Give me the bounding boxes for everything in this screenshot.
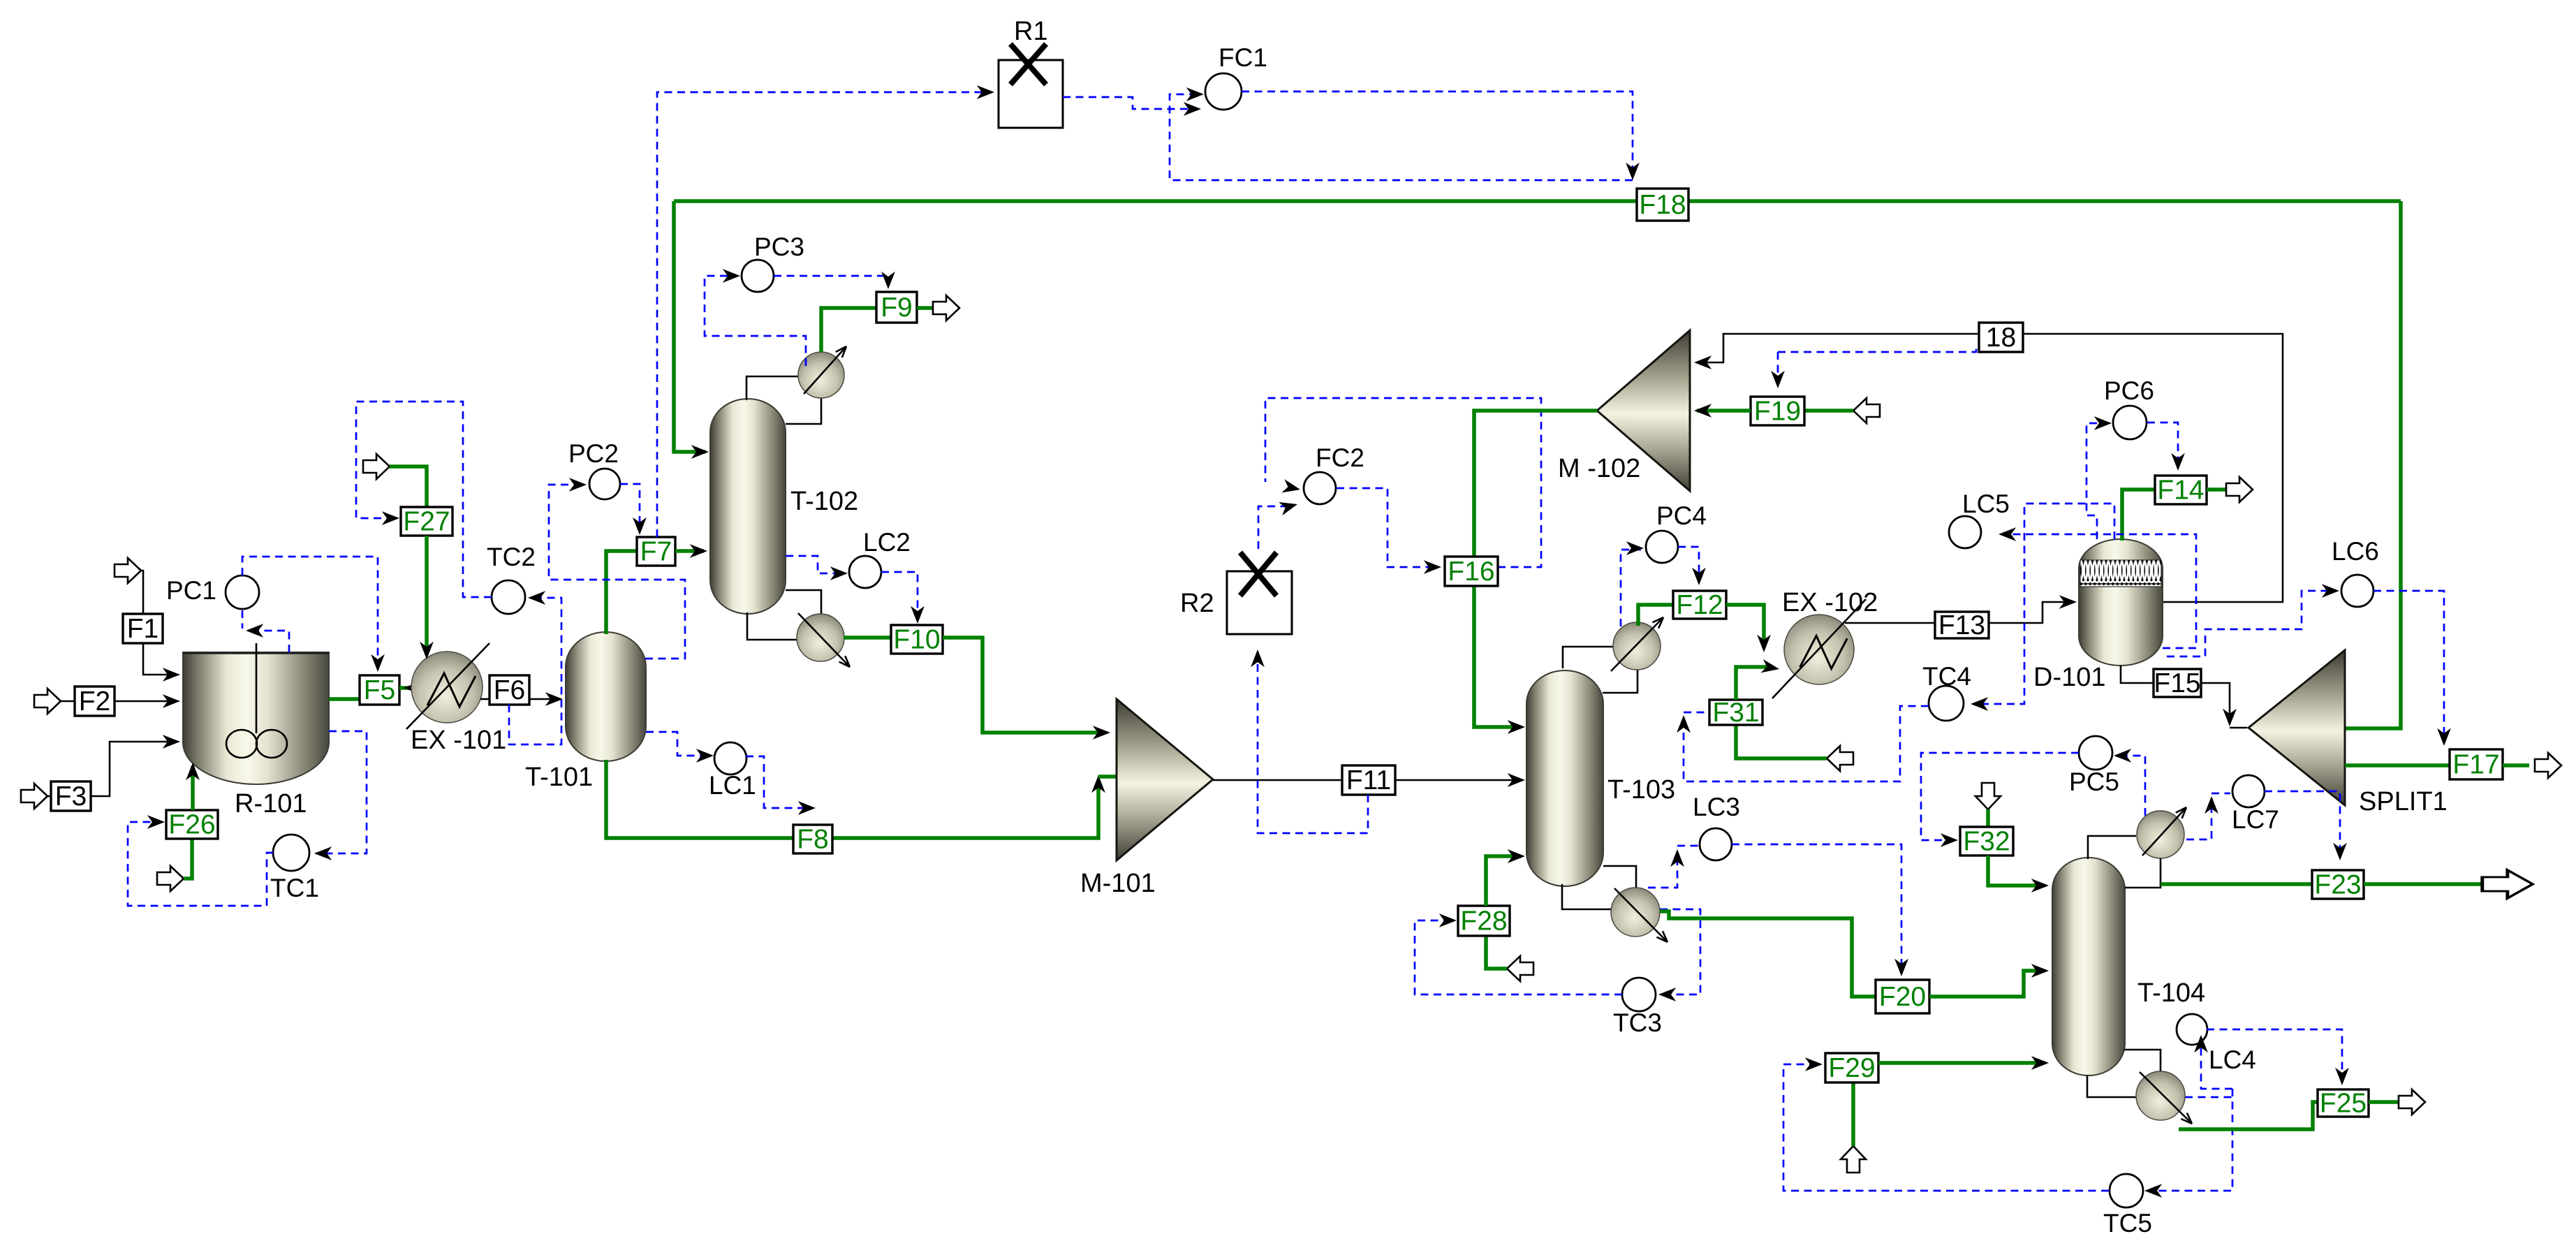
controller LC7: [2232, 775, 2279, 834]
arrow F20 into T-104: [2031, 964, 2049, 978]
arrow LC7 to F23: [2333, 843, 2347, 860]
stream label F28: [1458, 906, 1510, 937]
stream F25 out: [2369, 1100, 2398, 1104]
signal to LC6: [2167, 591, 2336, 656]
controller PC4: [1646, 501, 1707, 563]
stream label F17: [2450, 749, 2503, 780]
stream label F1: [123, 614, 163, 644]
signal LC2 to F10: [881, 572, 918, 619]
arrow F6 into T-101: [545, 692, 563, 706]
svg-text:D-101: D-101: [2033, 663, 2106, 692]
signal from 18 label to F19: [1778, 348, 1976, 352]
column T-102: [710, 399, 786, 614]
stream condenser to F23: [2161, 882, 2312, 886]
signal LC6 to F17: [2373, 591, 2444, 742]
arrow LC3 to F20: [1894, 959, 1908, 976]
arrow LC1 to F8: [798, 801, 816, 815]
svg-text:F19: F19: [1754, 397, 1801, 427]
signal TC1 to F26: [128, 822, 273, 906]
wire EX-102 to F13: [1845, 622, 1935, 624]
signal TC2 to F27: [356, 402, 492, 597]
controller TC5: [2103, 1174, 2152, 1238]
stream label F19: [1751, 397, 1804, 427]
stream F17 out: [2503, 763, 2529, 768]
svg-text:T-104: T-104: [2137, 978, 2205, 1008]
stream reboiler to F25: [2179, 1102, 2318, 1129]
arrow into LC1: [696, 749, 714, 763]
stream F20 to T-104: [1929, 971, 2045, 997]
svg-text:PC1: PC1: [166, 576, 216, 605]
svg-text:LC6: LC6: [2332, 537, 2379, 566]
stream label F15: [2154, 668, 2201, 698]
arrow into PC3: [723, 269, 740, 283]
arrow F16 into T-103: [1508, 720, 1525, 734]
stream label F27: [401, 507, 452, 537]
signal stub into LC7: [2211, 793, 2230, 795]
stream F29 into T-104: [1878, 1061, 2045, 1065]
svg-text:TC4: TC4: [1922, 662, 1971, 691]
source arrow for F3: [21, 784, 47, 809]
stream label F10: [891, 625, 943, 655]
stream F18 recycle into T-102: [674, 201, 705, 452]
signal TC4 to F31: [1684, 706, 1929, 781]
svg-text:TC5: TC5: [2103, 1209, 2152, 1238]
stream label F29: [1825, 1053, 1878, 1083]
svg-text:LC1: LC1: [709, 771, 756, 800]
stream F28 into T-103: [1486, 856, 1521, 906]
stream label F14: [2155, 476, 2207, 506]
stream F23 out: [2364, 882, 2483, 886]
arrow TC5 to F29: [1805, 1057, 1823, 1071]
sink arrow for F9: [933, 295, 959, 321]
wire condenser reflux to T-104: [2125, 858, 2161, 888]
arrow PC3 to F9: [881, 272, 895, 289]
svg-text:LC7: LC7: [2232, 805, 2279, 834]
wire F1 into R-101: [143, 643, 176, 675]
arrow into LC2: [830, 566, 848, 580]
arrow 18 into M-102: [1694, 355, 1712, 369]
svg-text:T-102: T-102: [790, 487, 858, 516]
signal TC5 into F29 stub: [1783, 1064, 1821, 1066]
arrow F28 into T-103: [1508, 849, 1525, 863]
stream label F9: [876, 292, 917, 323]
stream F26 into R-101: [191, 766, 195, 810]
stream F26 source up: [184, 839, 192, 879]
stream F14 out: [2207, 487, 2226, 492]
arrow into PC2: [569, 478, 587, 492]
controller TC3: [1613, 978, 1662, 1037]
arrow signal into F19: [1771, 371, 1785, 388]
arrow into PC4: [1626, 541, 1644, 555]
arrow up to LC4: [2194, 1035, 2208, 1052]
wire F15 into SPLIT1 apex: [2230, 727, 2247, 729]
wire F2 into R-101: [115, 700, 176, 703]
svg-text:F13: F13: [1938, 610, 1985, 640]
stream F27 into EX-101: [425, 536, 429, 655]
signal LC3 to F20: [1732, 844, 1901, 972]
stream F32 into T-104: [1988, 856, 2045, 886]
stream F5 to EX-101: [399, 686, 413, 690]
svg-text:R2: R2: [1180, 589, 1214, 618]
stream condenser to F12: [1638, 605, 1673, 626]
signal PC1 stub: [242, 610, 244, 629]
wire reboiler vapor to T-104: [2124, 1050, 2161, 1071]
svg-text:M-101: M-101: [1080, 869, 1156, 898]
stream F7 to T-102: [675, 549, 704, 553]
stream F18 from SPLIT1: [2345, 201, 2401, 728]
stream label 18: [1979, 323, 2023, 353]
signal reboiler to LC3: [1648, 853, 1677, 888]
reboiler of T-104: [2136, 1071, 2195, 1126]
arrow PC1 to F5: [371, 654, 385, 672]
stream label F7: [637, 537, 675, 567]
ratio block R1: [999, 44, 1063, 128]
svg-text:EX -102: EX -102: [1782, 588, 1878, 617]
stream label F11: [1342, 765, 1395, 795]
arrow up to LC7: [2205, 796, 2218, 814]
arrow F12 into EX-102: [1757, 635, 1771, 652]
svg-text:F8: F8: [797, 825, 829, 855]
controller LC5: [1949, 490, 2010, 548]
stream T-101 to F7: [606, 551, 637, 634]
wire T-104 bottom to reboiler: [2087, 1075, 2136, 1097]
stream label F23: [2312, 870, 2364, 900]
stream label F3: [51, 781, 91, 812]
arrow F7 into T-102: [690, 544, 707, 558]
arrow PC2 to F7: [633, 517, 647, 535]
source arrow for F32 pointing down: [1975, 783, 2001, 809]
stream F18 long horizontal: [674, 199, 2401, 203]
stream label F6: [490, 675, 529, 705]
svg-text:F2: F2: [79, 686, 111, 717]
signal condenser to LC7: [2186, 800, 2211, 839]
svg-text:F9: F9: [881, 293, 913, 323]
stream label F32: [1960, 827, 2013, 857]
signal LC4 to F25: [2207, 1029, 2342, 1081]
signal F7 to R1: [657, 92, 990, 537]
stream reboiler to F20: [1660, 911, 1876, 997]
controller PC5: [2069, 736, 2119, 796]
signal PC6 to F14: [2147, 423, 2178, 467]
mixer M-101: [1117, 699, 1213, 860]
svg-text:F18: F18: [1639, 190, 1686, 220]
signal to F19 vertical: [1777, 352, 1779, 373]
svg-text:PC6: PC6: [2104, 376, 2154, 405]
arrow F29 into T-104: [2031, 1056, 2049, 1070]
arrow at F5 outlet: [404, 681, 421, 695]
stream label F13: [1935, 610, 1989, 640]
arrow F27 into EX-101: [420, 642, 434, 659]
arrow F32 into T-104: [2031, 879, 2049, 893]
arrow into TC4: [1971, 697, 1988, 711]
signal FC2 to F16: [1337, 488, 1437, 567]
sink arrow for F25: [2399, 1089, 2425, 1115]
flash drum D-101: [2079, 539, 2163, 666]
signal into LC3 stub: [1677, 845, 1698, 847]
stream F10 to M-101: [943, 638, 1106, 733]
svg-text:F6: F6: [494, 675, 526, 705]
signal T-101 to PC2: [549, 485, 685, 659]
svg-text:F28: F28: [1460, 906, 1507, 937]
signal F16 to FC2: [1265, 398, 1541, 567]
stream label F12: [1673, 590, 1726, 620]
arrow into PC6: [2094, 416, 2112, 430]
svg-text:R1: R1: [1014, 17, 1048, 46]
arrow into PC1 line: [246, 624, 263, 638]
controller PC2: [568, 439, 620, 499]
source arrow for F19: [1853, 398, 1880, 423]
stream label F25: [2318, 1089, 2369, 1119]
arrow F31 into EX-102: [1760, 659, 1780, 676]
signal LC1 to F8: [746, 756, 811, 808]
signal TC3 to F28: [1415, 920, 1622, 994]
wire EX-101 to F6: [480, 698, 490, 700]
svg-text:SPLIT1: SPLIT1: [2359, 787, 2448, 816]
source arrow for F31: [1827, 746, 1853, 771]
signal condenser to PC3: [705, 276, 806, 366]
stream F31 into EX-102: [1736, 667, 1772, 700]
signal F6 to TC2: [509, 598, 561, 744]
arrow TC2 to F27: [382, 511, 399, 525]
arrow F18 into T-102: [691, 445, 709, 459]
svg-text:F14: F14: [2157, 476, 2204, 506]
svg-text:F3: F3: [55, 781, 87, 812]
arrow R2 into FC2: [1279, 497, 1299, 515]
wire condenser reflux to T-102: [786, 395, 821, 424]
stream F32 source down: [1986, 809, 1990, 827]
controller TC2: [487, 543, 536, 614]
signal T-102 to LC2: [786, 556, 844, 573]
wire F3 source to label: [47, 795, 51, 798]
signal D-101 to TC4: [1975, 504, 2114, 704]
signal PC5 to F32: [1921, 753, 2079, 840]
svg-text:F26: F26: [168, 810, 215, 840]
signal D-101 level to LC5: [2001, 534, 2196, 648]
column T-104: [2052, 858, 2125, 1075]
sink arrow for F14: [2226, 477, 2253, 502]
controller FC2: [1304, 443, 1364, 504]
signal LC7 to F23: [2265, 791, 2340, 856]
wire 18 into M-102: [1697, 334, 1979, 362]
arrow into TC2: [528, 591, 545, 605]
arrow LC6 to F17: [2437, 728, 2451, 746]
stream label F20: [1876, 980, 1929, 1013]
signal D-101 to PC6: [2086, 423, 2109, 539]
wire T-102 top to condenser: [746, 376, 798, 400]
source arrow for F27: [363, 454, 390, 479]
arrow FC2 to F16: [1424, 560, 1441, 574]
signal FC1 output right and down: [1242, 91, 1633, 176]
svg-text:F16: F16: [1448, 557, 1494, 587]
signal reboiler to LC4: [2201, 1039, 2232, 1089]
ratio block R2: [1227, 552, 1292, 634]
arrow F11 into T-103: [1508, 773, 1525, 787]
svg-text:LC3: LC3: [1693, 793, 1740, 821]
wire T-103 top to condenser: [1563, 647, 1614, 668]
reactor R-101 vessel: [183, 652, 329, 784]
wire F2 source to label: [61, 700, 75, 703]
controller TC1: [270, 835, 319, 902]
arrow into LC5: [1999, 527, 2016, 541]
svg-text:R-101: R-101: [235, 789, 307, 818]
svg-text:F17: F17: [2452, 750, 2499, 780]
source arrow for F28: [1507, 956, 1533, 981]
svg-text:F25: F25: [2320, 1089, 2367, 1119]
stream F19 source to label: [1804, 409, 1853, 413]
signal PC1 output to F5: [242, 557, 378, 668]
signal FC1 feedback loop: [1170, 94, 1633, 180]
condenser of T-104: [2137, 805, 2189, 858]
stream F9 out: [917, 306, 933, 310]
controller LC3: [1693, 793, 1740, 860]
arrow LC4 to F25: [2335, 1068, 2349, 1085]
reboiler of T-102: [797, 613, 853, 670]
controller FC1: [1205, 43, 1267, 110]
signal PC3 to F9: [774, 276, 888, 285]
heat exchanger EX-101: [406, 643, 490, 729]
svg-text:F32: F32: [1963, 827, 2010, 857]
svg-text:F1: F1: [127, 614, 159, 644]
wire F15 to SPLIT1: [2201, 683, 2230, 724]
wire M-101 to F11: [1213, 779, 1342, 781]
svg-text:LC5: LC5: [1962, 490, 2010, 518]
signal R-101 to TC1: [316, 731, 367, 853]
svg-text:F29: F29: [1828, 1053, 1875, 1083]
arrow R1 into FC1: [1184, 102, 1201, 116]
stream condenser to F9: [821, 308, 876, 352]
stream label F2: [75, 686, 115, 717]
svg-text:FC2: FC2: [1316, 443, 1364, 472]
stream label F31: [1709, 698, 1762, 728]
condenser of T-103: [1611, 615, 1666, 671]
mixer M-102: [1597, 330, 1690, 491]
stream F27 source down: [390, 467, 427, 507]
agitator of R-101: [226, 643, 287, 758]
svg-text:F11: F11: [1346, 765, 1391, 795]
splitter SPLIT1: [2249, 650, 2345, 805]
wire D-101 vapor to 18 label: [2023, 334, 2283, 602]
arrow F2 into R-101: [163, 694, 180, 708]
svg-text:T-103: T-103: [1607, 775, 1675, 805]
arrow up to LC3: [1670, 849, 1684, 867]
svg-text:LC2: LC2: [863, 528, 911, 557]
signal condenser to PC4: [1621, 550, 1641, 626]
arrow F8 up into M-101: [1091, 775, 1105, 793]
arrow into TC5: [2144, 1184, 2162, 1198]
stream F19 into M-102: [1697, 409, 1751, 413]
arrow PC6 to F14: [2171, 453, 2185, 471]
signal TC5 to F29: [1783, 1064, 2109, 1191]
stream label F18: [1637, 189, 1688, 221]
signal T-101 to LC1: [646, 732, 709, 756]
arrow FC1 to F18: [1626, 163, 1640, 180]
wire T-102 bottom to reboiler: [747, 612, 797, 640]
arrow F3 into R-101: [163, 735, 180, 749]
source arrow for F26: [157, 866, 184, 891]
wire F1 source to F1 label: [141, 571, 143, 614]
wire T-104 to condenser: [2088, 836, 2136, 859]
wire T-103 bottom to reboiler: [1562, 884, 1611, 909]
arrow F19 into M-102: [1694, 404, 1712, 418]
reboiler of T-103: [1611, 888, 1670, 945]
arrow into TC3: [1658, 987, 1676, 1001]
signal PC2 to F7: [620, 484, 640, 531]
source arrow for F2: [34, 689, 61, 714]
arrow F10 into M-101: [1093, 726, 1110, 740]
svg-text:PC5: PC5: [2069, 768, 2119, 796]
arrow into LC6: [2322, 584, 2339, 598]
arrow TC4 to F31: [1677, 715, 1691, 733]
controller PC1: [166, 575, 259, 609]
arrow into PC5: [2114, 749, 2131, 763]
arrow into TC1: [314, 846, 332, 860]
wire F6 to T-101: [529, 698, 559, 700]
demister mesh of D-101: [2080, 560, 2161, 587]
stream label F26: [166, 810, 218, 840]
column T-101: [566, 632, 646, 761]
stream F29 source up: [1851, 1082, 1855, 1146]
svg-text:TC1: TC1: [270, 874, 319, 902]
sink arrow for F17: [2535, 753, 2561, 778]
stream F28 source up: [1486, 936, 1507, 969]
column T-103: [1526, 670, 1603, 886]
arrow into R2: [1251, 649, 1265, 667]
controller LC6: [2332, 537, 2379, 607]
sink arrow for F23: [2482, 870, 2533, 898]
svg-text:F31: F31: [1712, 698, 1759, 728]
heat exchanger EX-102: [1772, 599, 1866, 698]
arrow F16 meas into FC2: [1281, 479, 1302, 497]
arrow F1 into R-101: [163, 668, 180, 682]
arrow PC4 to F12: [1692, 568, 1706, 585]
arrow TC3 to F28: [1439, 913, 1457, 927]
svg-text:F20: F20: [1879, 982, 1926, 1012]
svg-text:PC3: PC3: [754, 233, 804, 261]
signal to TC5: [2147, 1089, 2232, 1191]
arrow TC1 to F26: [147, 815, 165, 829]
svg-text:F7: F7: [640, 537, 672, 567]
controller LC4: [2177, 1014, 2256, 1074]
stream label F5: [360, 675, 399, 705]
arrow PC5 to F32: [1941, 833, 1958, 847]
arrow F15 down: [2223, 709, 2237, 726]
wire reboiler vapor to T-103: [1603, 866, 1636, 888]
controller LC2: [849, 528, 911, 588]
svg-text:F27: F27: [403, 507, 450, 537]
svg-text:TC2: TC2: [487, 543, 536, 571]
svg-text:F10: F10: [893, 625, 940, 655]
stream F31 source up: [1736, 725, 1827, 758]
stream F12 to EX-102: [1726, 605, 1764, 648]
controller PC6: [2104, 376, 2154, 439]
source arrow for F1: [115, 558, 141, 583]
svg-text:LC4: LC4: [2209, 1045, 2256, 1074]
svg-text:T-101: T-101: [525, 763, 593, 792]
signal reboiler tap: [2185, 1096, 2232, 1099]
svg-text:PC4: PC4: [1656, 501, 1707, 530]
stream M-102 out through F16 to T-103: [1474, 411, 1597, 727]
wire reboiler vapor to T-102: [786, 590, 821, 614]
wire F13 to D-101: [1989, 602, 2073, 623]
arrow LC2 to F10: [911, 606, 925, 624]
svg-text:F15: F15: [2154, 668, 2200, 698]
svg-text:M -102: M -102: [1558, 454, 1640, 483]
stream F8 stub into M-101: [1098, 774, 1117, 779]
arrow into R1: [977, 85, 994, 99]
svg-text:18: 18: [1986, 323, 2016, 353]
wire F3 into R-101: [91, 742, 176, 796]
wire D-101 bottom to F15: [2121, 666, 2154, 683]
